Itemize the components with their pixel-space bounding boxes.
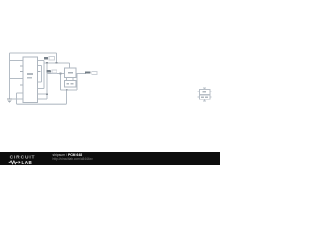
transformer T1 upper box [200,90,210,95]
relay K1 coil box [64,68,76,78]
junction node B [46,93,48,95]
pin stub U1 left 3 [20,71,23,73]
net label TM text [46,70,50,72]
transformer T1 lower label [201,96,204,97]
transformer T1 lower side ticks [198,96,212,98]
wire right drop from top bus [56,53,58,63]
junction node D [60,73,62,75]
wire K1 top pin [69,63,71,68]
svg-text:http://circuitlab.com/c8444xv: http://circuitlab.com/c8444xv [53,157,94,161]
wire K1 right pin to label [76,72,86,74]
footer bar [0,152,220,165]
net label MC box [49,57,55,60]
wire K1 bottom riser [66,90,68,104]
relay K1 inter-section pin stubs [67,78,73,81]
transformer T1 side ticks [198,91,212,93]
wire pin1 feedback outer loop [38,61,44,89]
IC U1 value label [27,73,33,75]
wire inner feedback loop [38,66,42,83]
IC U1 name label [27,77,32,79]
wire to K1 left pin [47,73,64,75]
pin stub U1 left 2 [20,65,23,67]
wire loop around K1 lower section [61,73,78,90]
wire left riser [16,93,23,104]
wire vertical node bus [46,63,48,99]
transformer T1 lower box [200,95,210,99]
transformer T1 top pin [203,87,206,89]
transformer T1 upper label [203,91,207,92]
wire net MC horizontal [44,62,70,64]
wire top bus [10,52,57,54]
IC U1 body [23,57,38,103]
transformer T1 bottom pin [203,99,206,101]
net label TM box [52,70,57,73]
ground [7,99,12,103]
junction node A [56,62,58,64]
pin stub U1 left 5 [20,84,23,86]
net label 1mV box [92,71,97,74]
wire rail to U1 pin b [10,77,24,79]
wire bottom bus [16,103,66,105]
relay K1 contact box [64,81,76,87]
svg-text:LAB: LAB [22,160,33,165]
wire rail to U1 pin a [10,60,24,62]
CircuitLab logo resistor squiggle [9,161,18,164]
wire pin to node [38,93,47,95]
junction node C [46,62,48,64]
wire ground bus [10,98,47,100]
junction node E [66,89,68,91]
relay K1 contact label [67,83,70,85]
relay K1 coil label [68,72,73,74]
net label MC text [44,57,48,60]
wire left rail [9,53,11,99]
pin stub U1 right 3 [38,71,41,73]
net label 1mV text [85,72,90,74]
